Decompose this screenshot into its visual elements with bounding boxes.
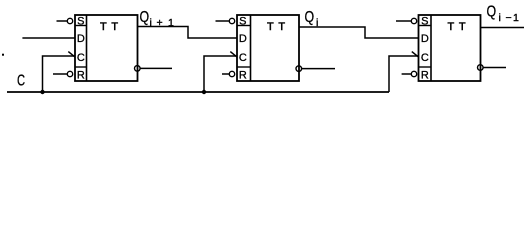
svg-text:TT: TT [100,21,123,33]
wire to DD1 D input [22,37,75,39]
DD2 C dynamic input stroke [230,52,237,58]
wire clock bus to DD1 C input [43,56,76,92]
svg-text:D: D [77,33,85,45]
wire to DD2 R input [222,73,229,75]
DD3 R inversion bubble [411,71,416,76]
continuation dot at left edge [2,54,4,56]
wire DD2 Q output to DD3 D input [299,27,419,38]
flip-flop DD2 outline [237,15,299,81]
svg-text:R: R [77,70,85,82]
wire DD2 inverted output stub [302,68,335,70]
wire clock bus to DD2 C input [204,56,237,92]
svg-text:R: R [239,70,247,82]
svg-text:S: S [421,16,428,28]
wire DD3 Q output [481,27,525,29]
DD3 inverted output bubble [478,65,484,71]
flip-flop DD1 outline [75,15,138,81]
wire to DD3 R input [402,73,412,75]
DD1 R inversion bubble [67,71,72,76]
net label Q_i-1 [487,2,520,24]
wire to DD1 R input [53,73,67,75]
svg-text:R: R [421,70,429,82]
svg-text:S: S [77,16,84,28]
svg-text:TT: TT [267,21,290,33]
svg-text:S: S [239,16,246,28]
wire to DD1 S input [57,20,68,22]
junction node at DD1 clock drop [40,90,44,94]
clock bus wire C [7,91,389,93]
svg-text:D: D [239,33,247,45]
wire DD1 Q output to DD2 D input [138,27,238,39]
flip-flop DD3 outline [419,15,481,81]
svg-text:C: C [421,52,429,64]
junction node at DD2 clock drop [202,90,206,94]
svg-text:C: C [77,52,85,64]
svg-text:Q: Q [140,8,150,26]
svg-text:TT: TT [448,21,471,33]
net label Q_i+1 [140,8,175,29]
DD2 S inversion bubble [229,18,234,23]
DD2 R inversion bubble [229,71,234,76]
svg-text:C: C [239,52,247,64]
DD1 C dynamic input stroke [68,52,75,58]
wire clock bus riser to DD3 C input [389,56,419,92]
svg-text:Q: Q [305,8,315,26]
svg-text:C: C [17,72,25,89]
DD1 inverted output bubble [135,66,141,72]
DD1 S inversion bubble [67,18,72,23]
svg-text:D: D [421,33,429,45]
DD2 inverted output bubble [296,66,302,72]
svg-text:Q: Q [487,2,497,20]
wire DD1 inverted output stub [140,67,172,69]
svg-text:i: i [316,17,318,29]
DD3 C dynamic input stroke [412,52,419,58]
net label Q_i [305,8,319,29]
wire to DD3 S input [396,20,411,22]
DD3 S inversion bubble [411,18,416,23]
wire DD3 inverted output stub [483,67,506,69]
wire to DD2 S input [216,20,230,22]
